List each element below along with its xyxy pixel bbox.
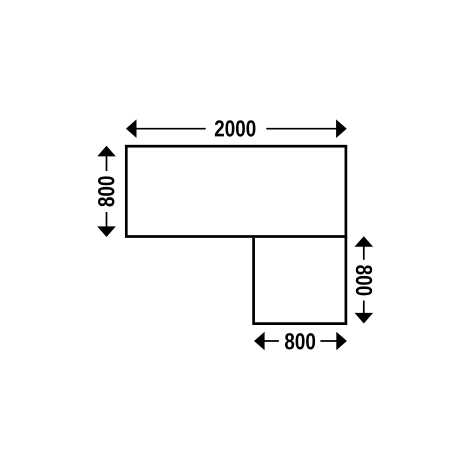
arrowhead 2000 left bbox=[126, 119, 137, 138]
dimension shaft 800 (bottom) bbox=[264, 331, 338, 351]
dimension label 800 right (reads top to bottom) bbox=[356, 265, 372, 295]
desk return worktop outline (800 x 800) bbox=[254, 237, 346, 324]
arrowhead 800 bottom left bbox=[254, 332, 265, 351]
dimension label 800 left (reads bottom to top) bbox=[98, 176, 114, 206]
dimension shaft 800 (right) bbox=[354, 246, 374, 314]
arrowhead 800 left bottom bbox=[97, 226, 116, 237]
dimension shaft 2000 (top) bbox=[136, 119, 338, 139]
dimension label 800 bottom bbox=[285, 333, 315, 349]
dimension label 2000 bbox=[215, 120, 256, 136]
arrowhead 800 right bottom bbox=[355, 313, 374, 324]
arrowhead 800 left top bbox=[97, 146, 116, 157]
arrowhead 800 right top bbox=[355, 236, 374, 247]
arrowhead 2000 right bbox=[336, 119, 347, 138]
arrowhead 800 bottom right bbox=[336, 332, 347, 351]
dimension shaft 800 (left) bbox=[96, 155, 116, 227]
desk main worktop outline (2000 x 800) bbox=[126, 146, 346, 236]
